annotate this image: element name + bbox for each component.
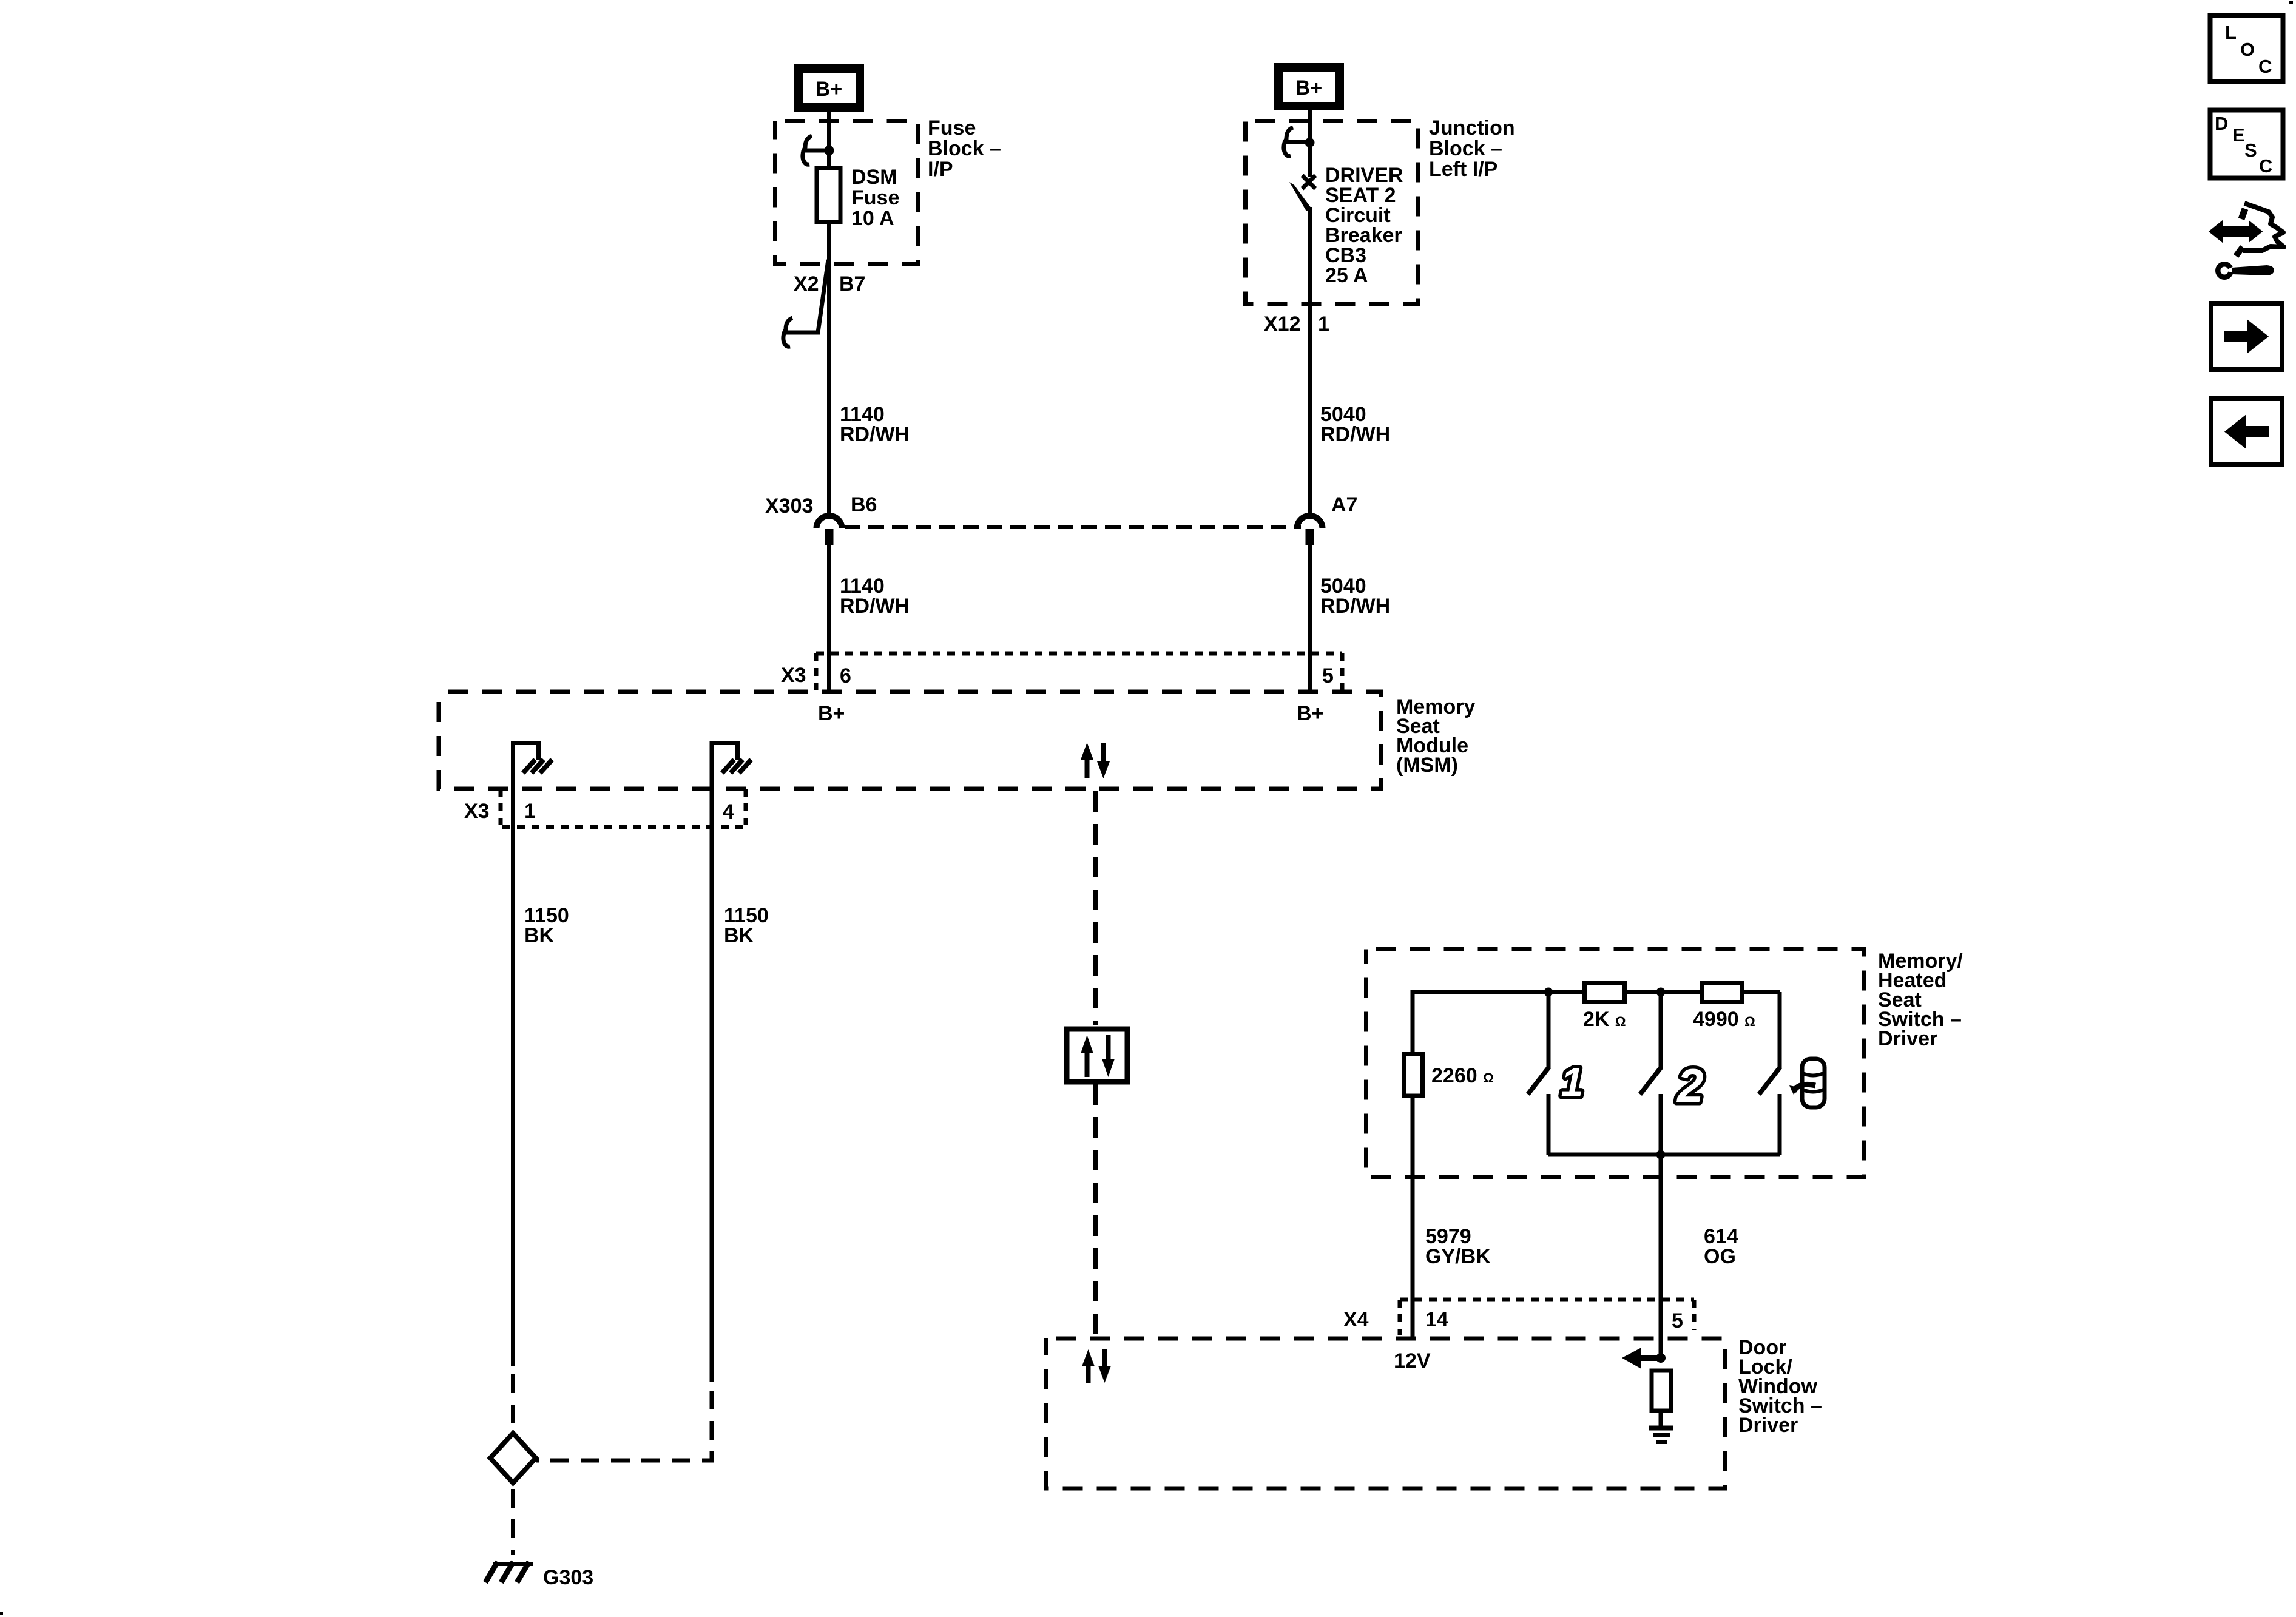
svg-text:A7: A7	[1331, 493, 1357, 516]
svg-text:12V: 12V	[1394, 1349, 1431, 1372]
svg-text:Block –: Block –	[1429, 137, 1502, 160]
svg-text:1: 1	[524, 800, 536, 823]
svg-text:Left I/P: Left I/P	[1429, 158, 1497, 181]
svg-text:E: E	[2232, 124, 2245, 146]
svg-text:B6: B6	[851, 493, 877, 516]
svg-text:X3: X3	[781, 664, 806, 687]
svg-text:B+: B+	[1297, 702, 1323, 725]
svg-text:Fuse: Fuse	[851, 186, 899, 209]
svg-text:RD/WH: RD/WH	[1320, 423, 1390, 446]
svg-text:G303: G303	[543, 1566, 593, 1589]
svg-text:S: S	[2244, 140, 2257, 161]
svg-text:C: C	[2258, 56, 2272, 77]
svg-text:X4: X4	[1343, 1308, 1369, 1331]
svg-text:BK: BK	[524, 924, 555, 947]
svg-text:X12: X12	[1264, 312, 1301, 336]
svg-text:BK: BK	[724, 924, 754, 947]
svg-text:I/P: I/P	[928, 158, 953, 181]
svg-text:25 A: 25 A	[1325, 264, 1368, 287]
svg-text:B+: B+	[818, 702, 845, 725]
svg-text:Driver: Driver	[1738, 1414, 1798, 1437]
svg-text:B+: B+	[1295, 76, 1322, 100]
svg-text:L: L	[2225, 22, 2237, 43]
svg-text:O: O	[2240, 39, 2255, 60]
svg-text:C: C	[2259, 155, 2272, 177]
svg-text:1: 1	[1561, 1059, 1584, 1104]
svg-text:B7: B7	[839, 272, 865, 295]
svg-text:GY/BK: GY/BK	[1425, 1245, 1491, 1268]
svg-text:(MSM): (MSM)	[1396, 754, 1458, 777]
svg-text:X303: X303	[765, 495, 813, 518]
svg-text:RD/WH: RD/WH	[840, 423, 910, 446]
svg-text:2: 2	[1676, 1059, 1703, 1112]
svg-text:5: 5	[1672, 1309, 1683, 1332]
svg-text:10 A: 10 A	[851, 207, 894, 230]
svg-text:14: 14	[1425, 1308, 1448, 1331]
svg-text:4: 4	[723, 800, 734, 823]
svg-text:X2: X2	[794, 272, 819, 295]
svg-text:1: 1	[1318, 312, 1329, 336]
svg-text:6: 6	[840, 664, 851, 687]
svg-text:Block –: Block –	[928, 137, 1001, 160]
svg-text:OG: OG	[1704, 1245, 1736, 1268]
svg-text:DSM: DSM	[851, 166, 897, 189]
svg-text:5: 5	[1322, 664, 1334, 687]
svg-text:RD/WH: RD/WH	[1320, 595, 1390, 618]
svg-text:Fuse: Fuse	[928, 116, 976, 140]
svg-text:Junction: Junction	[1429, 116, 1515, 140]
svg-text:D: D	[2215, 113, 2228, 134]
svg-text:RD/WH: RD/WH	[840, 595, 910, 618]
svg-text:X3: X3	[464, 800, 490, 823]
svg-text:B+: B+	[815, 78, 842, 101]
svg-text:Driver: Driver	[1878, 1027, 1937, 1050]
